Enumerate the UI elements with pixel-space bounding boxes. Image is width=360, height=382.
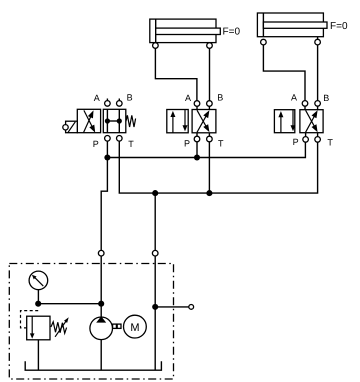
valve V2 parallel arrows position (172, 115, 174, 133)
wire valve V2 port P to P-bus (196, 142, 198, 158)
drain port end circle (189, 305, 194, 310)
svg-text:T: T (128, 139, 134, 149)
relief valve spring (51, 322, 67, 334)
svg-text:F=0: F=0 (223, 27, 241, 38)
wire cylinder2 portB to valve V3 port B (317, 37, 319, 104)
valve V3 crossed arrows position (306, 115, 316, 133)
wire gauge to pump line link (38, 303, 101, 305)
svg-text:P: P (293, 137, 299, 147)
cylinder CYL1 (150, 19, 220, 48)
electric motor M (123, 315, 146, 338)
junction node T-bus at valve V2 (206, 190, 212, 196)
pressure gauge (29, 271, 48, 304)
svg-text:A: A (94, 93, 100, 103)
svg-text:B: B (323, 93, 329, 103)
wire cylinder1 portA to valve V2 port A (155, 46, 197, 104)
relief valve outlet (37, 340, 39, 370)
valve V1 return spring (126, 115, 136, 127)
junction node gauge line (35, 301, 41, 307)
junction node pump line (98, 301, 104, 307)
wire tank line inside power unit (154, 256, 156, 370)
svg-text:P: P (184, 138, 190, 148)
hydraulic pump (90, 316, 113, 370)
relief valve adjustment arrow (55, 319, 67, 337)
wire cylinder2 portA to valve V3 port A (263, 42, 305, 103)
svg-text:T: T (327, 137, 333, 147)
wire T-bus down to power unit tank port (154, 193, 156, 250)
valve V3 4/2-way valve (274, 101, 323, 143)
wire T-bus from valve V1 T to valve V3 T (119, 141, 317, 193)
wire drain port line to the right (155, 306, 189, 308)
power unit enclosure (dash-dot frame) (9, 264, 173, 380)
svg-text:T: T (218, 139, 224, 149)
wire valve V1 P down to power unit pump port (101, 158, 107, 251)
junction node P-bus at valve V2 (194, 154, 200, 160)
junction node T-bus at tank drop (152, 190, 158, 196)
junction node tank line (152, 304, 158, 310)
svg-text:M: M (130, 322, 139, 334)
power unit tank return port circle (152, 250, 158, 256)
pressure relief valve (21, 311, 69, 371)
valve V2 port stubs and circles (196, 106, 198, 109)
svg-text:B: B (127, 93, 133, 103)
valve V3 parallel arrows position (280, 115, 282, 133)
svg-text:B: B (217, 92, 223, 102)
valve V1 crossed arrows position (84, 114, 92, 132)
valve V3 port stubs and circles (304, 106, 306, 110)
wire cylinder1 portB to valve V2 port B (209, 46, 211, 104)
valve V2 crossed arrows position (197, 114, 207, 132)
wire P-bus from valve V1 P to valve V3 P (107, 141, 305, 157)
wire pump line inside power unit (100, 256, 102, 317)
svg-text:A: A (185, 93, 191, 103)
junction node P-bus at valve V1 (104, 154, 110, 160)
valve V1 4/2-way solenoid valve (63, 99, 136, 142)
valve V1 through position with junctions (106, 109, 108, 132)
svg-text:P: P (93, 139, 99, 149)
svg-text:F=0: F=0 (330, 21, 348, 32)
tank channel (25, 361, 161, 370)
valve V2 4/2-way valve (167, 101, 216, 142)
cylinder CYL2 (257, 13, 327, 45)
valve V1 port stubs and circles (106, 99, 108, 101)
svg-text:A: A (291, 93, 297, 103)
shaft coupling between pump and motor (113, 324, 121, 328)
power unit pump supply port circle (98, 250, 104, 256)
wire valve V2 port T to T-bus (208, 142, 210, 193)
valve V1 solenoid box (66, 121, 78, 133)
